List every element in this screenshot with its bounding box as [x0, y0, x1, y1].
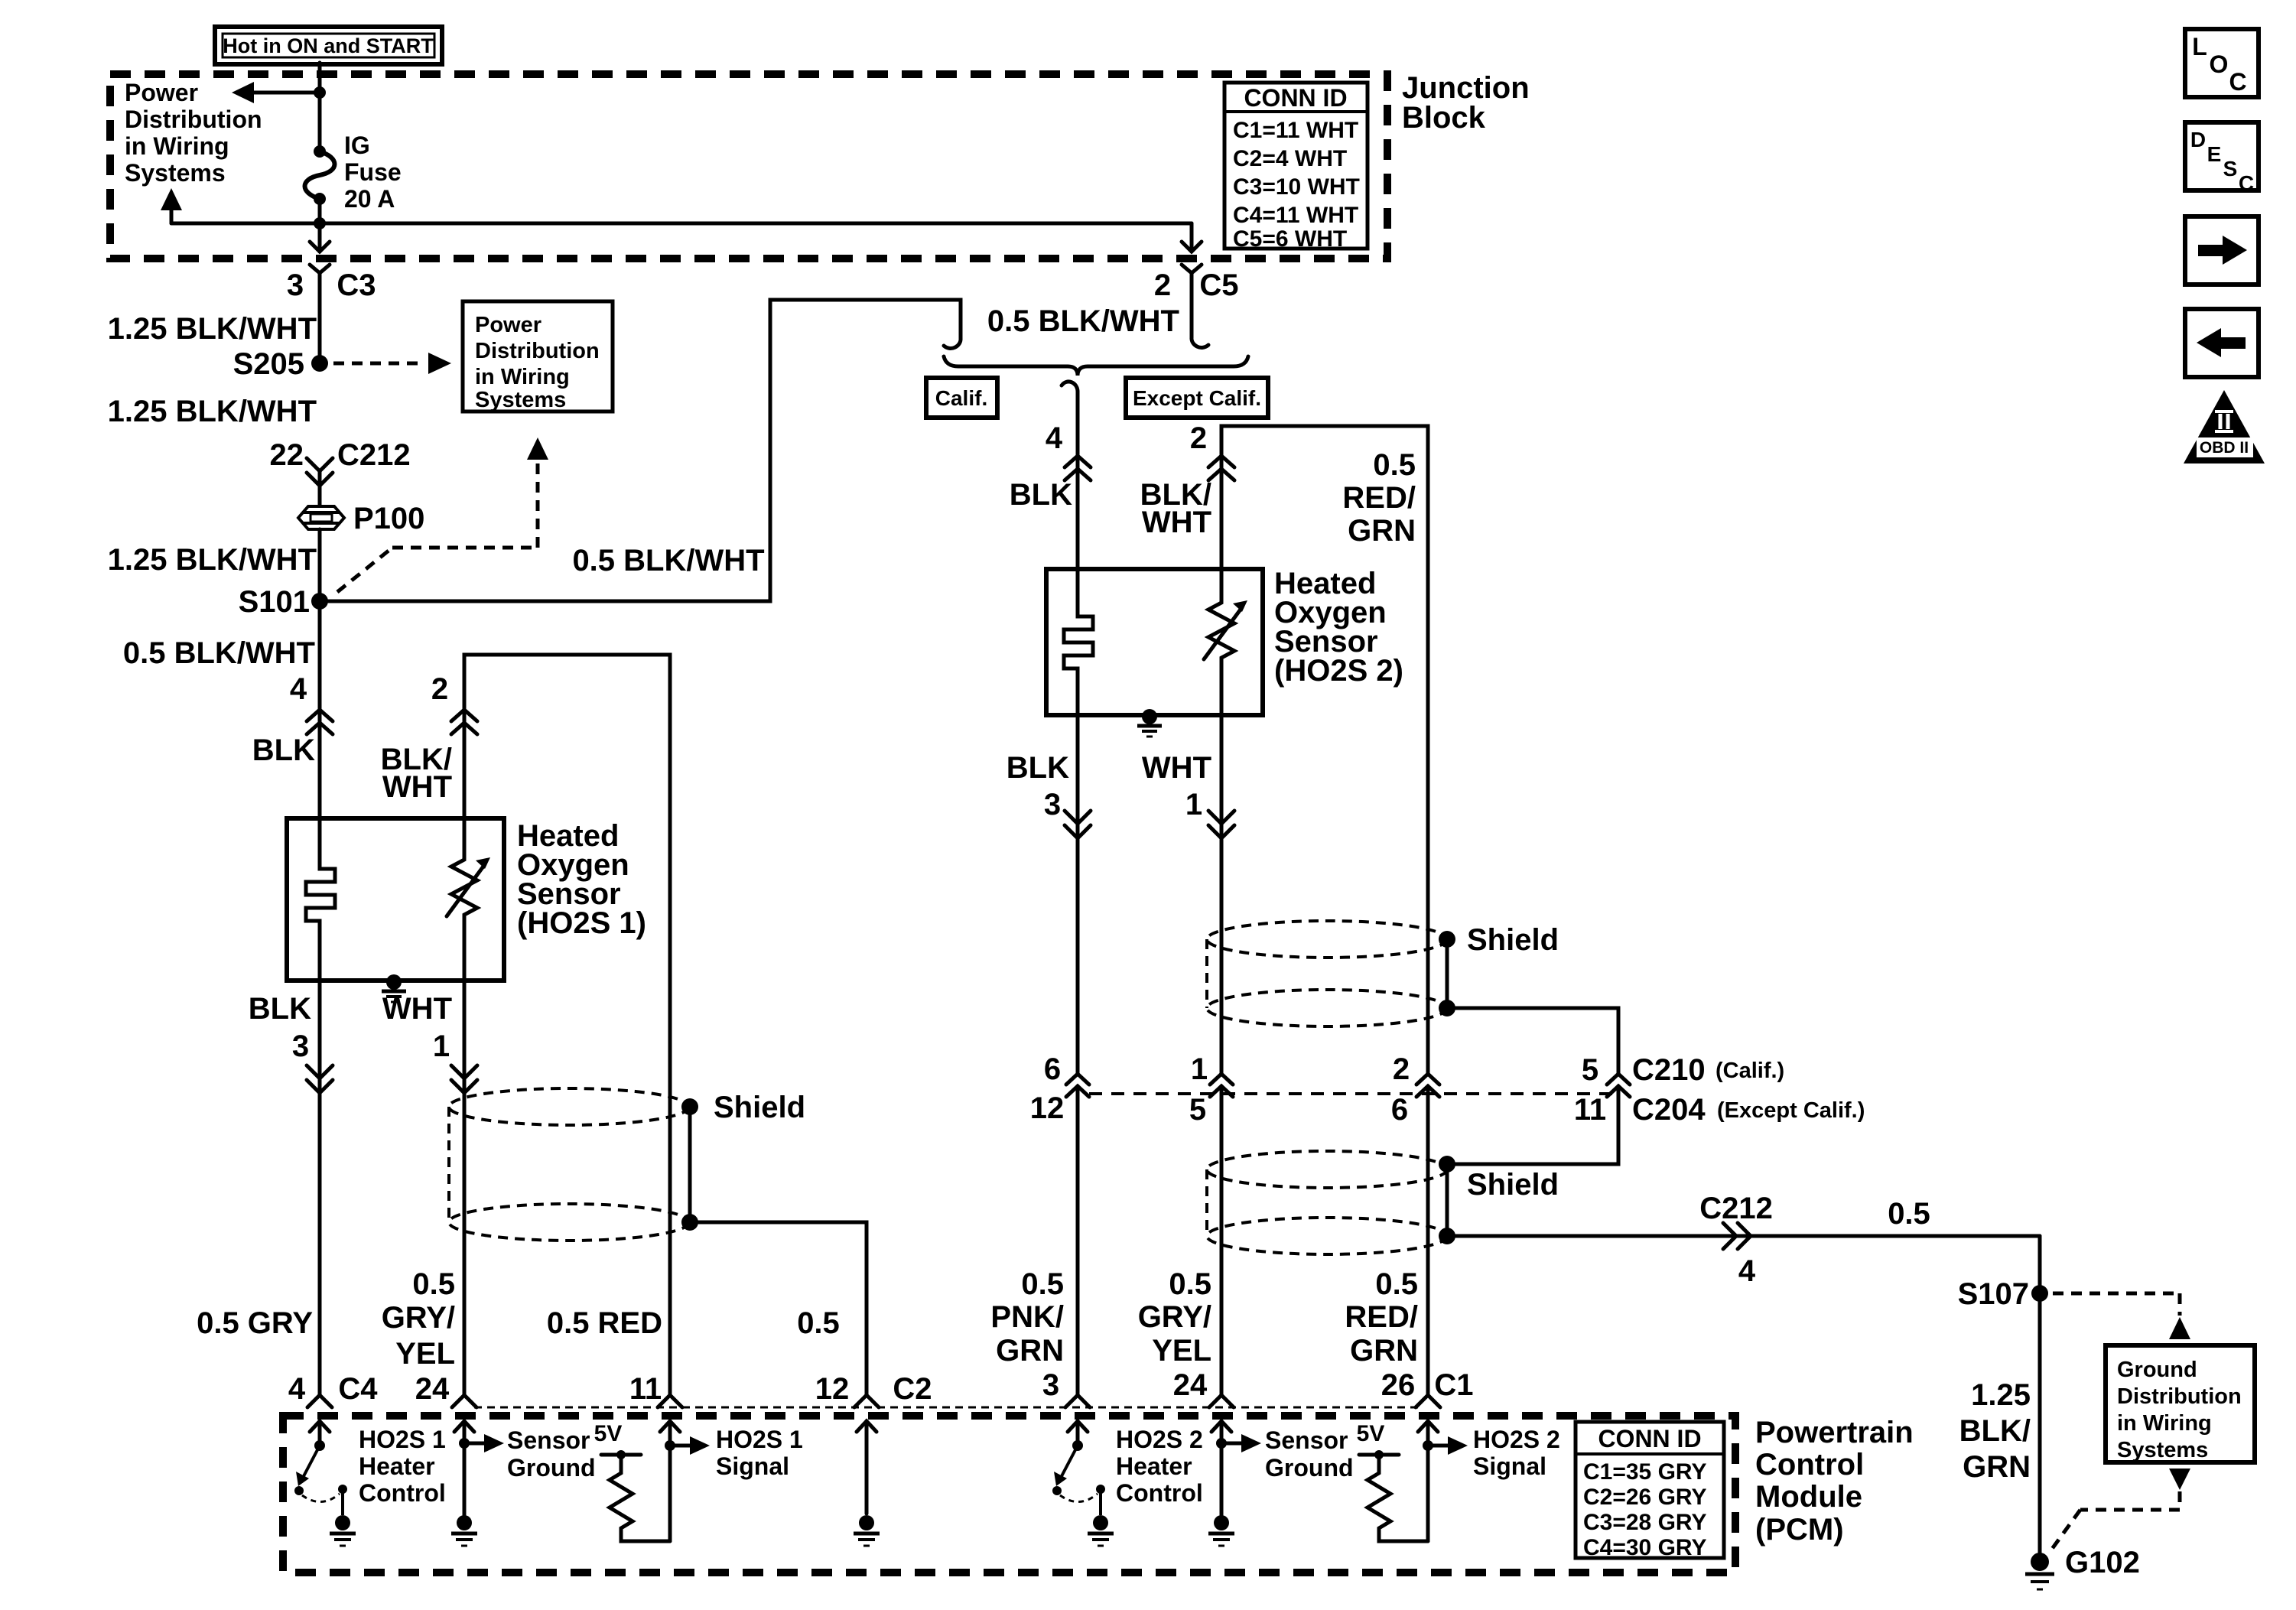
svg-text:Hot in ON and START: Hot in ON and START — [223, 34, 434, 57]
svg-text:0.5: 0.5 — [412, 1267, 455, 1301]
connector C210/C204 crossing pin 6/12 — [1030, 1052, 1089, 1395]
wire: arrow up to Power Distribution — [161, 188, 182, 223]
label: C204 (Except Calif.) — [1574, 1093, 1865, 1127]
svg-text:WHT: WHT — [382, 770, 452, 804]
svg-text:C4=11 WHT: C4=11 WHT — [1233, 203, 1358, 228]
svg-text:Distribution: Distribution — [125, 106, 262, 133]
pin: C2 pin 12 to ground — [854, 1421, 880, 1546]
svg-text:WHT: WHT — [1142, 506, 1211, 539]
grommet P100 — [298, 471, 424, 535]
wire: dashed reference arrow from S205 — [333, 353, 451, 374]
svg-text:0.5: 0.5 — [1021, 1267, 1064, 1301]
svg-text:24: 24 — [1173, 1368, 1208, 1402]
label: 0.5 GRY/YEL (HO2S2) — [1138, 1267, 1211, 1368]
svg-text:Powertrain: Powertrain — [1755, 1416, 1914, 1449]
svg-text:12: 12 — [815, 1372, 850, 1406]
svg-text:C5: C5 — [1199, 268, 1238, 302]
ground: HO2S1 internal — [382, 974, 406, 1002]
svg-text:P100: P100 — [353, 502, 424, 535]
svg-text:2: 2 — [1190, 421, 1207, 455]
svg-text:C2=4 WHT: C2=4 WHT — [1233, 146, 1347, 171]
component: Powertrain Control Module dashed box — [283, 1416, 1735, 1573]
pin: HO2S2 signal with 5V pullup — [1357, 1421, 1468, 1541]
svg-text:0.5 BLK/WHT: 0.5 BLK/WHT — [572, 544, 764, 577]
svg-text:GRY/: GRY/ — [1138, 1300, 1211, 1334]
svg-text:BLK: BLK — [1007, 751, 1069, 785]
svg-text:O: O — [2210, 50, 2229, 78]
connector crossing pin 5/11 (shield drain) — [1607, 1074, 1630, 1097]
node: junction dot at feed — [314, 86, 326, 99]
svg-text:RED/: RED/ — [1342, 481, 1416, 515]
label: 0.5 RED/GRN (upper) — [1342, 448, 1416, 548]
svg-text:Shield: Shield — [1467, 923, 1559, 957]
svg-text:(PCM): (PCM) — [1755, 1513, 1844, 1547]
label: Heated Oxygen Sensor (HO2S 2) — [1274, 567, 1403, 688]
svg-text:0.5: 0.5 — [1169, 1267, 1211, 1301]
svg-text:Signal: Signal — [1473, 1452, 1546, 1480]
label: BLK/WHT (HO2S2 pin2) — [1140, 478, 1211, 539]
connector PCM pin 24 fork (C1) — [1173, 1368, 1234, 1407]
component: Heated Oxygen Sensor (HO2S 1) box — [287, 818, 504, 981]
wire: fuse output bus — [171, 199, 1192, 229]
svg-text:BLK: BLK — [252, 733, 315, 767]
wire: HO2S2 pin 1 to PCM pin 24 (GRY/YEL) — [1142, 715, 1234, 1074]
node S101 — [239, 585, 328, 619]
note: Power Distribution in Wiring Systems (reference box) — [463, 301, 613, 412]
wire: dashed reference S107 to Ground Distribution — [2053, 1293, 2190, 1339]
svg-text:Ground: Ground — [507, 1454, 596, 1482]
svg-text:YEL: YEL — [1152, 1334, 1211, 1368]
svg-text:0.5: 0.5 — [1375, 1267, 1418, 1301]
svg-text:1.25 BLK/WHT: 1.25 BLK/WHT — [108, 543, 317, 577]
label: Hot in ON and START — [215, 27, 442, 64]
label: C210 (Calif.) — [1582, 1053, 1784, 1087]
svg-text:20 A: 20 A — [344, 185, 395, 213]
svg-text:Systems: Systems — [2117, 1438, 2208, 1462]
svg-text:in Wiring: in Wiring — [475, 365, 570, 389]
svg-text:0.5: 0.5 — [797, 1306, 840, 1340]
svg-text:Control: Control — [1116, 1479, 1203, 1507]
svg-text:S: S — [2223, 157, 2238, 181]
node S107 — [1958, 1277, 2048, 1311]
svg-text:GRN: GRN — [1348, 514, 1416, 548]
svg-text:3: 3 — [292, 1029, 309, 1063]
svg-text:0.5 BLK/WHT: 0.5 BLK/WHT — [987, 304, 1179, 338]
svg-text:Module: Module — [1755, 1480, 1862, 1514]
svg-text:3: 3 — [1042, 1368, 1059, 1402]
svg-text:C1=11 WHT: C1=11 WHT — [1233, 118, 1358, 143]
svg-text:GRY/: GRY/ — [382, 1301, 455, 1335]
label: IG Fuse 20 A — [344, 132, 402, 213]
table: CONN ID (junction block) — [1224, 83, 1368, 252]
connector C210/C204 crossing pin 2/6 (RED/GRN wire) — [1391, 1052, 1439, 1395]
svg-text:4: 4 — [1738, 1254, 1756, 1288]
node S205 — [233, 347, 328, 381]
wire: S101 loop to brace (0.5 BLK/WHT) — [320, 300, 961, 601]
svg-text:YEL: YEL — [395, 1337, 455, 1371]
label: Calif. — [926, 378, 997, 418]
svg-text:IG: IG — [344, 132, 370, 159]
svg-text:0.5: 0.5 — [1888, 1197, 1930, 1231]
svg-text:Heater: Heater — [359, 1452, 435, 1480]
svg-text:GRN: GRN — [1350, 1334, 1418, 1368]
svg-text:C5=6 WHT: C5=6 WHT — [1233, 226, 1347, 252]
switch: HO2S 1 heater control driver — [294, 1421, 356, 1546]
svg-text:5: 5 — [1189, 1093, 1206, 1127]
svg-text:Shield: Shield — [1467, 1168, 1559, 1202]
svg-text:C2: C2 — [893, 1372, 932, 1406]
label: BLK/WHT (HO2S1 pin 2) — [381, 743, 452, 804]
shield cylinder HO2S1 — [449, 1088, 689, 1241]
svg-text:Shield: Shield — [714, 1091, 805, 1124]
svg-text:5V: 5V — [594, 1421, 623, 1446]
label: Heated Oxygen Sensor (HO2S 1) — [517, 819, 646, 940]
svg-text:5V: 5V — [1357, 1421, 1385, 1446]
wire: HO2S1 pin 3 to PCM pin 4 — [249, 981, 333, 1395]
svg-text:0.5 BLK/WHT: 0.5 BLK/WHT — [123, 636, 315, 670]
svg-text:C1=35 GRY: C1=35 GRY — [1583, 1459, 1706, 1485]
wire: HO2S1 pin 2 inverted U to PCM pin 11 — [431, 655, 670, 1395]
connector C5 drop with arrow — [1182, 223, 1208, 347]
label: Sensor Ground (HO2S1) — [507, 1426, 596, 1482]
connector C212 pin 22 chevrons — [270, 438, 411, 486]
svg-text:Ground: Ground — [1265, 1454, 1354, 1482]
svg-text:BLK: BLK — [249, 992, 311, 1026]
shield drain lower HO2S2 — [1439, 1086, 1618, 1244]
connector PCM pin 26 fork (C1) — [1381, 1368, 1474, 1407]
label: Sensor Ground (HO2S2) — [1265, 1426, 1354, 1482]
svg-text:GRN: GRN — [996, 1334, 1064, 1368]
switch: HO2S 2 heater control driver — [1052, 1421, 1114, 1546]
connector C210/C204 crossing pin 1/5 — [1189, 1052, 1233, 1395]
pin: HO2S1 signal with 5V pullup — [594, 1421, 710, 1541]
svg-text:2: 2 — [431, 672, 448, 706]
svg-text:HO2S 2: HO2S 2 — [1116, 1426, 1203, 1453]
svg-text:C1: C1 — [1434, 1368, 1473, 1402]
svg-text:C212: C212 — [1699, 1192, 1773, 1225]
svg-text:C3=10 WHT: C3=10 WHT — [1233, 174, 1360, 200]
svg-text:S107: S107 — [1958, 1277, 2029, 1311]
wire: arrow to Power Distribution — [232, 82, 320, 103]
svg-text:RED/: RED/ — [1345, 1300, 1418, 1334]
svg-text:HO2S 2: HO2S 2 — [1473, 1426, 1560, 1453]
svg-text:Distribution: Distribution — [475, 339, 600, 363]
label: PCM pin numbers 4 C4 24 11 12 C2 — [288, 1372, 932, 1406]
shield cylinder HO2S2 upper — [1207, 921, 1447, 1026]
label: Junction Block — [1402, 71, 1530, 135]
connector PCM pin 3 fork — [1042, 1368, 1090, 1407]
svg-text:in Wiring: in Wiring — [2117, 1411, 2212, 1436]
svg-text:Distribution: Distribution — [2117, 1384, 2242, 1409]
svg-text:1.25: 1.25 — [1971, 1378, 2031, 1412]
svg-text:S205: S205 — [233, 347, 304, 381]
svg-text:CONN ID: CONN ID — [1244, 84, 1347, 112]
svg-text:Fuse: Fuse — [344, 158, 402, 186]
connector PCM pin row forks — [307, 1395, 879, 1407]
svg-text:0.5 GRY: 0.5 GRY — [197, 1306, 313, 1340]
icon: arrow left — [2185, 309, 2259, 377]
wire: drop to C3 with arrow — [310, 223, 330, 252]
svg-text:Sensor: Sensor — [507, 1426, 590, 1454]
svg-text:GRN: GRN — [1963, 1450, 2031, 1484]
svg-text:2: 2 — [1154, 268, 1171, 302]
wire: shield to S107 via C212 pin 4 — [1447, 1192, 2040, 1288]
connector chevrons pin 2 — [1190, 421, 1234, 480]
svg-text:Systems: Systems — [475, 388, 566, 412]
note: Power Distribution in Wiring Systems (junction block) — [125, 79, 262, 187]
svg-text:S101: S101 — [239, 585, 310, 619]
svg-text:4: 4 — [288, 1372, 306, 1406]
svg-text:C4=30 GRY: C4=30 GRY — [1583, 1535, 1706, 1560]
shield drain HO2S1 — [681, 1091, 805, 1231]
svg-text:Heater: Heater — [1116, 1452, 1192, 1480]
svg-text:C2=26 GRY: C2=26 GRY — [1583, 1485, 1706, 1510]
svg-text:Power: Power — [475, 313, 541, 337]
wire: Except Calif branch inverted U — [1221, 426, 1428, 1074]
svg-text:BLK: BLK — [1010, 478, 1072, 512]
svg-text:Signal: Signal — [716, 1452, 789, 1480]
svg-text:5: 5 — [1582, 1053, 1598, 1087]
svg-text:26: 26 — [1381, 1368, 1416, 1402]
svg-text:6: 6 — [1391, 1093, 1408, 1127]
svg-text:C4: C4 — [338, 1372, 378, 1406]
svg-text:Ground: Ground — [2117, 1358, 2197, 1382]
svg-text:G102: G102 — [2065, 1546, 2140, 1579]
svg-text:(Except Calif.): (Except Calif.) — [1717, 1098, 1865, 1123]
svg-text:HO2S 1: HO2S 1 — [716, 1426, 803, 1453]
wire: shield drain to PCM pin 12 — [690, 1222, 867, 1395]
svg-text:4: 4 — [290, 672, 307, 706]
svg-text:L: L — [2192, 33, 2207, 60]
label: Except Calif. — [1126, 378, 1268, 418]
wire: HO2S1 pin 1 to PCM pin 24 — [382, 981, 477, 1395]
svg-text:(HO2S 2): (HO2S 2) — [1274, 654, 1403, 688]
svg-text:3: 3 — [1044, 788, 1061, 821]
svg-text:C212: C212 — [337, 438, 411, 472]
heater element HO2S2 — [1064, 569, 1093, 715]
ground G102 — [2025, 1546, 2140, 1589]
wire: feed from Hot in ON and START — [318, 63, 322, 151]
label: 0.5 PNK/GRN — [990, 1267, 1064, 1368]
svg-text:Junction: Junction — [1402, 71, 1530, 105]
heater element HO2S1 — [306, 818, 335, 981]
shield drain upper HO2S2 — [1439, 923, 1618, 1074]
svg-text:3: 3 — [287, 268, 304, 302]
svg-text:E: E — [2207, 142, 2222, 166]
svg-text:1.25 BLK/WHT: 1.25 BLK/WHT — [108, 312, 317, 346]
connector line C210 / C204 dashed — [1089, 1092, 1618, 1095]
wire: HO2S2 pin 3 to PCM pin 3 (PNK/GRN) — [1007, 715, 1091, 1074]
sensing element (variable resistor) HO2S2 — [1204, 569, 1247, 715]
svg-text:1.25 BLK/WHT: 1.25 BLK/WHT — [108, 395, 317, 428]
icon: DESC — [2185, 122, 2259, 195]
svg-text:1: 1 — [1191, 1052, 1208, 1086]
svg-text:0.5: 0.5 — [1373, 448, 1416, 482]
svg-text:11: 11 — [629, 1372, 662, 1406]
svg-text:11: 11 — [1574, 1093, 1606, 1127]
svg-text:WHT: WHT — [1142, 751, 1211, 785]
label: HO2S 2 Heater Control — [1116, 1426, 1203, 1507]
component: Heated Oxygen Sensor (HO2S 2) box — [1046, 569, 1263, 715]
svg-text:C3: C3 — [337, 268, 376, 302]
svg-text:Control: Control — [359, 1479, 446, 1507]
svg-text:OBD II: OBD II — [2200, 439, 2249, 457]
label: HO2S 2 Signal — [1473, 1426, 1560, 1480]
svg-text:Sensor: Sensor — [1265, 1426, 1348, 1454]
svg-text:1: 1 — [433, 1029, 450, 1063]
icon: arrow right — [2185, 216, 2259, 285]
svg-text:C210: C210 — [1632, 1053, 1706, 1087]
svg-text:HO2S 1: HO2S 1 — [359, 1426, 446, 1453]
svg-text:Power: Power — [125, 79, 198, 106]
brace merge Calif / Except Calif — [944, 356, 1248, 392]
svg-text:(Calif.): (Calif.) — [1715, 1059, 1784, 1083]
icon: OBD II triangle — [2184, 390, 2265, 463]
label: 2 C5 — [1154, 268, 1239, 302]
icon: LOC — [2185, 29, 2259, 97]
svg-text:4: 4 — [1046, 421, 1063, 455]
label: 1.25 BLK/GRN — [1959, 1378, 2031, 1484]
svg-text:WHT: WHT — [382, 992, 452, 1026]
svg-text:Except Calif.: Except Calif. — [1133, 386, 1261, 410]
svg-text:6: 6 — [1044, 1052, 1061, 1086]
label: 0.5 RED/GRN (lower) — [1345, 1267, 1418, 1368]
svg-text:C: C — [2229, 68, 2246, 96]
svg-text:2: 2 — [1393, 1052, 1410, 1086]
svg-text:12: 12 — [1030, 1091, 1065, 1125]
label: Powertrain Control Module (PCM) — [1755, 1416, 1914, 1547]
svg-text:(HO2S 1): (HO2S 1) — [517, 906, 646, 940]
table: CONN ID (PCM) — [1576, 1422, 1724, 1560]
wire: S107 down to G102 — [2038, 1236, 2042, 1562]
connector chevrons pin 4 — [1046, 421, 1091, 480]
connector C3 pin 3 fork — [310, 265, 330, 363]
svg-text:BLK/: BLK/ — [1959, 1414, 2031, 1448]
svg-text:22: 22 — [270, 438, 304, 472]
svg-text:C: C — [2239, 171, 2254, 195]
svg-text:1: 1 — [1185, 788, 1202, 821]
wire: Calif branch to HO2S2 pin 4 — [1076, 392, 1080, 569]
sensing element (variable resistor) HO2S1 — [447, 818, 490, 981]
junction block dashed box — [110, 74, 1387, 259]
svg-text:D: D — [2190, 128, 2206, 151]
svg-text:CONN ID: CONN ID — [1598, 1425, 1701, 1452]
shield cylinder HO2S2 lower — [1207, 1151, 1447, 1254]
svg-text:Block: Block — [1402, 101, 1486, 135]
connector pin row thin dashed line — [474, 1407, 1423, 1409]
svg-text:C204: C204 — [1632, 1093, 1706, 1127]
fuse IG Fuse 20 A — [305, 145, 335, 205]
note: Ground Distribution in Wiring Systems box — [2106, 1345, 2255, 1462]
label: HO2S 1 Heater Control — [359, 1426, 446, 1507]
wire: dashed reference box to G102 — [2048, 1469, 2190, 1554]
pin: sensor ground HO2S2 — [1208, 1421, 1261, 1546]
wire: P100 to S101 — [318, 529, 322, 601]
wire: S101 to HO2S1 pin 4 — [252, 601, 333, 818]
svg-text:24: 24 — [415, 1372, 450, 1406]
wire: dashed reference path P100 to box — [337, 437, 548, 592]
pin: sensor ground HO2S1 — [451, 1421, 504, 1546]
svg-text:C3=28 GRY: C3=28 GRY — [1583, 1510, 1706, 1535]
label: HO2S 1 Signal — [716, 1426, 803, 1480]
label: 0.5 GRY/YEL (HO2S1) — [382, 1267, 455, 1371]
label: 3 C3 — [287, 268, 376, 302]
svg-text:PNK/: PNK/ — [990, 1300, 1064, 1334]
svg-text:in Wiring: in Wiring — [125, 132, 229, 160]
svg-text:Control: Control — [1755, 1448, 1864, 1482]
ground: HO2S2 internal — [1137, 709, 1162, 737]
svg-text:Calif.: Calif. — [935, 386, 987, 410]
svg-text:0.5 RED: 0.5 RED — [547, 1306, 662, 1340]
svg-text:Systems: Systems — [125, 159, 226, 187]
